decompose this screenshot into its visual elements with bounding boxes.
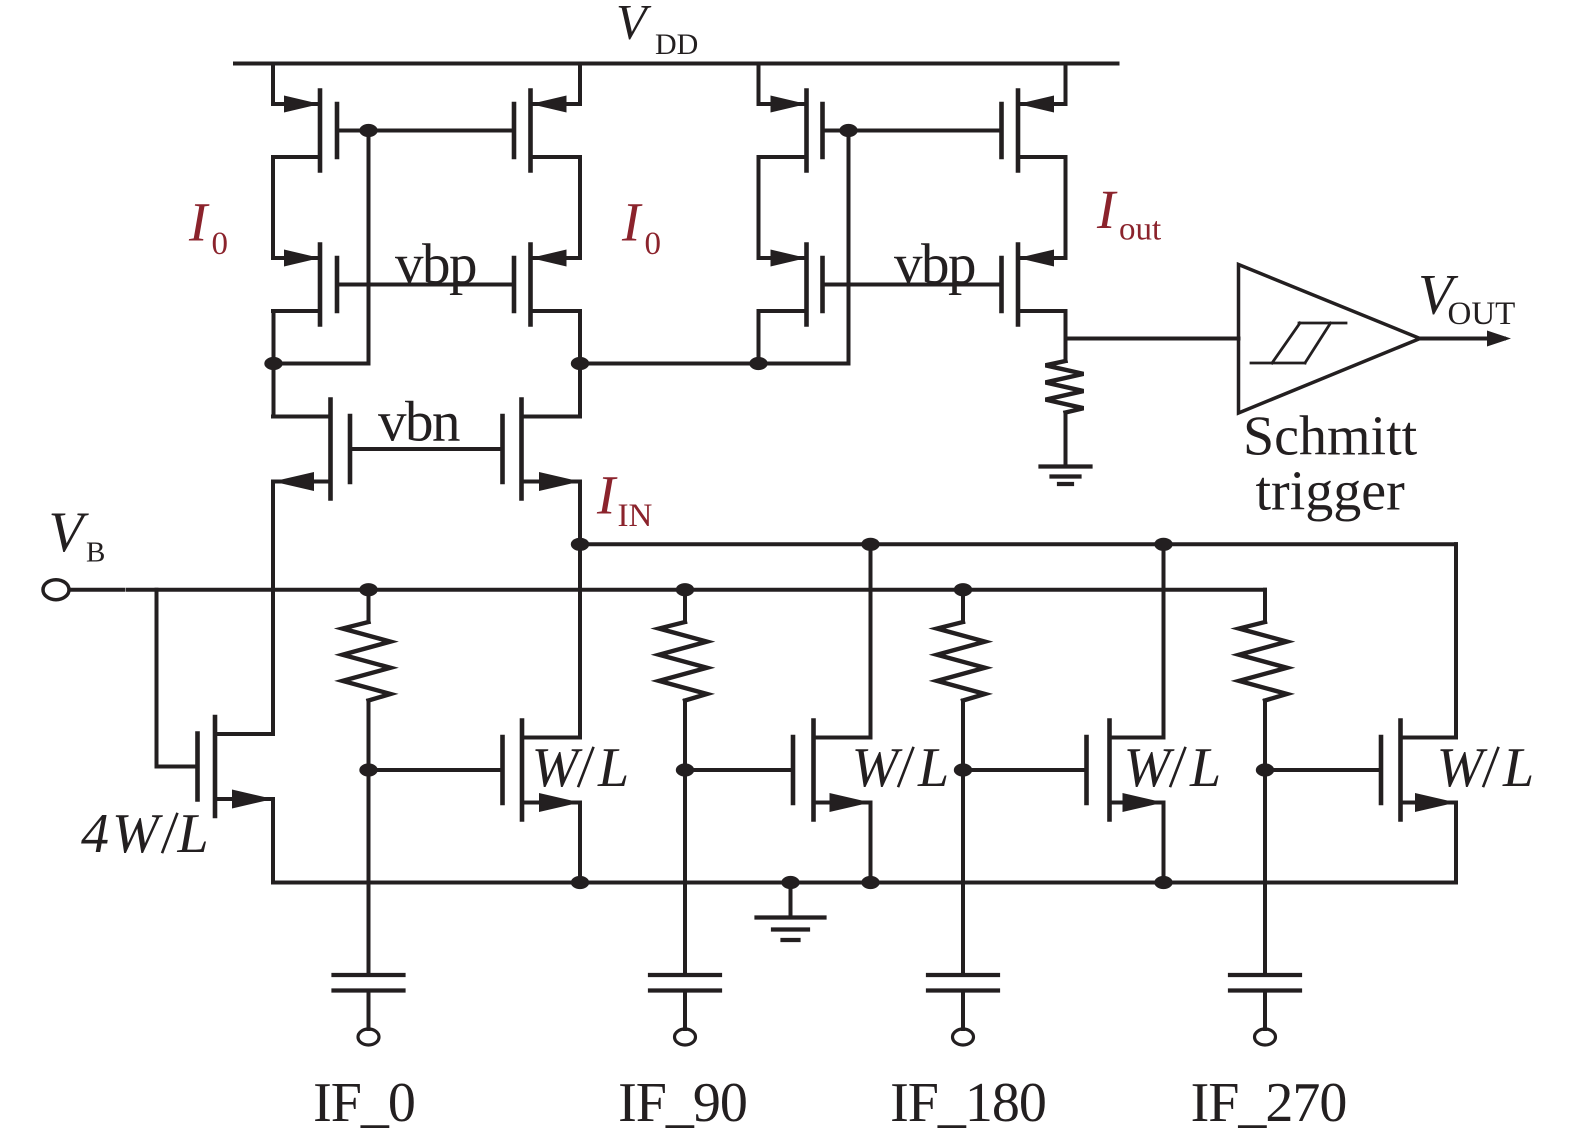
svg-text:L: L [917,737,949,799]
svg-text:L: L [1502,737,1534,799]
svg-text:IF_90: IF_90 [618,1072,747,1134]
svg-text:Schmitt: Schmitt [1243,406,1418,468]
svg-text:trigger: trigger [1256,461,1406,523]
svg-text:IN: IN [618,498,653,534]
svg-text:I: I [1096,179,1118,240]
svg-text:L: L [177,803,209,865]
svg-text:L: L [597,737,629,799]
svg-text:IF_0: IF_0 [313,1072,415,1134]
svg-text:out: out [1119,212,1161,248]
svg-text:DD: DD [655,28,698,61]
svg-text:W: W [1437,737,1488,799]
svg-text:0: 0 [212,226,229,262]
svg-text:IF_180: IF_180 [890,1072,1046,1134]
svg-text:I: I [188,192,210,253]
svg-text:W: W [1124,737,1175,799]
svg-text:4W: 4W [81,803,163,865]
svg-text:L: L [1189,737,1221,799]
svg-text:vbp: vbp [894,233,975,296]
svg-text:vbn: vbn [378,391,460,454]
svg-text:0: 0 [645,226,662,262]
svg-text:B: B [86,537,105,569]
svg-text:IF_270: IF_270 [1191,1072,1347,1134]
svg-text:I: I [621,192,643,253]
svg-text:vbp: vbp [395,233,476,296]
svg-text:W: W [852,737,903,799]
svg-text:I: I [596,465,618,526]
svg-text:W: W [532,737,583,799]
svg-text:OUT: OUT [1448,296,1516,332]
